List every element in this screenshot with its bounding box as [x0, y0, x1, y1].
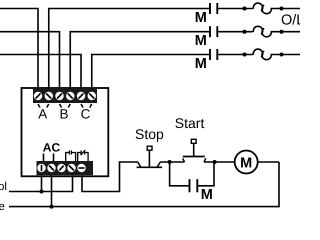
svg-text:e: e [0, 201, 5, 212]
terminal screw B4 [67, 164, 75, 172]
node dot right of start [213, 160, 217, 164]
tick under T6 [90, 104, 92, 108]
node dot left of start [168, 160, 172, 164]
overload heater row2 upper loop [253, 26, 262, 34]
svg-text:C: C [81, 107, 91, 122]
tick under T1 [38, 104, 40, 108]
start pushbutton NO [183, 139, 206, 162]
svg-text:B: B [59, 107, 68, 122]
AC supply stub right [53, 154, 55, 162]
wire L1 right segment [49, 9, 209, 92]
contactor contact M row2 [210, 26, 217, 37]
wire L2 right segment [70, 32, 209, 91]
terminal screw T4 [66, 92, 74, 100]
internal NO contact bracket [66, 151, 76, 162]
tick under T5 [81, 104, 83, 108]
terminal screw T1 [34, 92, 42, 100]
svg-text:M: M [195, 33, 207, 49]
holding contact branch right wire [198, 162, 214, 186]
terminal screw B5 [77, 164, 85, 172]
node row3 dot after overload [280, 53, 284, 57]
holding contact M bars [190, 179, 198, 192]
svg-text:M: M [195, 10, 207, 26]
svg-text:O/L: O/L [281, 13, 300, 29]
wire L3 left segment [0, 55, 81, 92]
relay box [22, 88, 109, 176]
wire L2 left segment [0, 32, 60, 91]
wire B2 to neutral line [51, 175, 53, 206]
node row1 dot before overload [243, 7, 247, 11]
wire L3 right segment [92, 55, 209, 92]
wire L1 left segment [0, 9, 38, 92]
node row1 dot after overload [280, 7, 284, 11]
wire stop to start [160, 161, 184, 163]
wire coil to right [258, 161, 279, 163]
node row2 dot after overload [280, 30, 284, 34]
svg-text:Start: Start [175, 115, 205, 131]
overload heater row3 upper loop [253, 49, 262, 57]
node row2 dot before overload [243, 30, 247, 34]
terminal screw T6 [88, 92, 96, 100]
wire row2 after contact [218, 31, 252, 33]
coil M circle [235, 151, 258, 174]
terminal screw T5 [77, 92, 85, 100]
control line from ol label [9, 175, 73, 191]
stop pushbutton NC [137, 146, 162, 167]
svg-text:A: A [38, 107, 47, 122]
wire row1 to right edge [271, 8, 301, 10]
node dot on ol line [40, 190, 44, 194]
wire row3 after contact [218, 54, 252, 56]
tick under T3 [60, 104, 62, 108]
neutral e line across bottom [9, 162, 279, 207]
AC supply stub left [43, 154, 45, 162]
svg-text:M: M [195, 56, 207, 72]
tick under T2 [47, 104, 49, 108]
svg-text:M: M [240, 155, 252, 171]
wire row3 to right edge [271, 54, 301, 56]
holding contact branch left wire [170, 162, 189, 186]
node dot on e line [50, 205, 54, 209]
svg-text:ol: ol [0, 181, 7, 193]
wire row1 after contact [218, 8, 252, 10]
terminal screw B2 [47, 164, 55, 172]
wire B1 to control line [41, 175, 43, 191]
contactor contact M row1 [210, 3, 217, 14]
upper terminal strip bar [33, 89, 97, 103]
terminal screw B1 [37, 164, 45, 172]
contactor contact M row3 [210, 49, 217, 60]
terminal screw T3 [55, 92, 63, 100]
svg-text:Stop: Stop [135, 126, 164, 142]
wire row2 to right edge [271, 31, 301, 33]
svg-text:AC: AC [43, 141, 61, 155]
terminal screw B3 [57, 164, 65, 172]
tick under T4 [68, 104, 70, 108]
wire B5 to stop switch [82, 162, 138, 192]
overload heater row1 lower loop [262, 5, 271, 14]
terminal screw T2 [45, 92, 53, 100]
lower terminal strip bar [37, 161, 94, 175]
internal NC contact bracket [78, 150, 88, 161]
wire start to coil [204, 161, 235, 163]
overload heater row2 lower loop [262, 28, 271, 37]
overload heater row1 upper loop [253, 3, 262, 11]
svg-text:M: M [201, 187, 213, 203]
node row3 dot before overload [243, 53, 247, 57]
overload heater row3 lower loop [262, 51, 271, 60]
